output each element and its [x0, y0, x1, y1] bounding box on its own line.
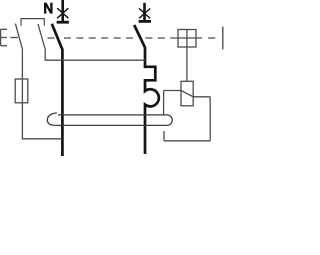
pole L conductor: blade, thermal element step, magnetic element bump, vertical: [134, 25, 159, 154]
push button actuator E (at left edge): [1, 29, 7, 45]
wire: test contact 1 down to resistor and to pole N below toroid: [22, 50, 61, 139]
latch box (crossed square): [178, 30, 196, 48]
breaker terminal symbol pole L (line + X + bar): [139, 3, 151, 22]
mechanism linkage dashed line: [48, 37, 216, 39]
wire: toroid tap down to top of toroid: [163, 91, 165, 115]
mechanical link dash from button to test contact: [10, 37, 17, 39]
wire: loop bottom: [164, 140, 210, 142]
label N (neutral pole): [44, 3, 53, 14]
pole N conductor: blade + vertical through toroid: [52, 24, 63, 156]
test contact 1 blade: [15, 24, 22, 50]
toroid winding start curl (left end): [47, 113, 57, 125]
breaker terminal symbol pole N (line + X + bar): [57, 0, 69, 22]
test resistor R (box around wire): [15, 79, 28, 103]
toroidal current transformer (stadium): [56, 115, 172, 125]
trip relay K (box with diagonal): [181, 81, 193, 106]
relay diagonal: [181, 91, 193, 97]
wire: relay left to toroid tap: [164, 90, 181, 92]
wire: latch box centre down to trip relay: [186, 30, 188, 82]
linkage end bar (handle): [222, 27, 224, 50]
solid linkage segment through latch box: [170, 37, 202, 39]
wire: loop lower-left up to under toroid: [163, 131, 165, 141]
test contact 2 blade: [38, 24, 45, 50]
bridge bracket joining test contacts: [21, 19, 44, 26]
wire: test contact 2 down and across to pole L: [45, 50, 145, 60]
wire: loop right side down: [209, 97, 211, 141]
wire: relay right: [193, 96, 210, 98]
